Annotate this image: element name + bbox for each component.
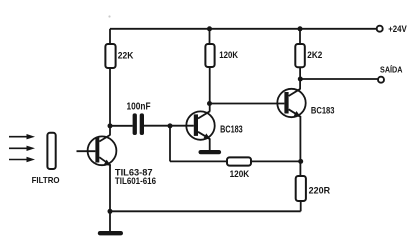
svg-text:+24V: +24V bbox=[388, 23, 407, 34]
svg-text:TIL601-616: TIL601-616 bbox=[115, 175, 156, 186]
svg-text:BC183: BC183 bbox=[220, 125, 243, 136]
svg-text:SAÍDA: SAÍDA bbox=[380, 66, 403, 75]
svg-text:BC183: BC183 bbox=[311, 106, 335, 117]
svg-text:FILTRO: FILTRO bbox=[32, 176, 60, 185]
svg-text:220R: 220R bbox=[309, 185, 331, 195]
svg-text:2K2: 2K2 bbox=[307, 50, 322, 61]
svg-text:22K: 22K bbox=[118, 50, 134, 61]
svg-text:100nF: 100nF bbox=[127, 102, 151, 113]
svg-text:120K: 120K bbox=[219, 50, 238, 61]
svg-text:120K: 120K bbox=[230, 169, 250, 179]
